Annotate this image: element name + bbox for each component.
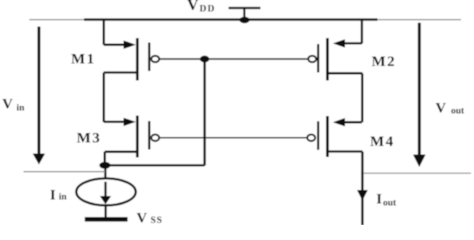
svg-text:V: V — [187, 0, 199, 14]
svg-text:SS: SS — [151, 216, 163, 225]
svg-text:M2: M2 — [372, 54, 397, 70]
svg-text:in: in — [17, 104, 26, 114]
svg-text:M3: M3 — [77, 130, 102, 146]
svg-text:M4: M4 — [370, 134, 395, 150]
svg-text:DD: DD — [200, 5, 216, 15]
svg-text:V: V — [137, 211, 148, 226]
svg-text:out: out — [451, 107, 465, 117]
svg-text:M1: M1 — [71, 51, 96, 67]
svg-text:I: I — [50, 188, 56, 204]
svg-text:V: V — [2, 96, 13, 112]
svg-text:V: V — [436, 101, 447, 117]
svg-text:out: out — [383, 199, 397, 209]
svg-text:in: in — [59, 193, 68, 203]
svg-text:I: I — [376, 191, 382, 207]
